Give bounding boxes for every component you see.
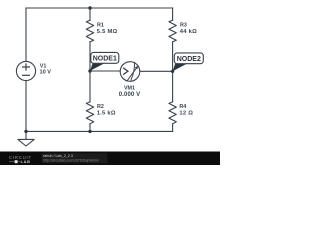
- wire NODE1 to voltmeter: [90, 70, 120, 72]
- resistor R4 zigzag: [169, 102, 176, 124]
- VM1 V glyph (rotated): [123, 68, 128, 75]
- svg-text:R3: R3: [180, 23, 187, 29]
- node NODE1 label box: [91, 52, 119, 63]
- svg-text:NODE1: NODE1: [93, 56, 117, 63]
- junction NODE1: [88, 69, 91, 72]
- ground symbol triangle: [18, 139, 34, 146]
- junction bottom rail / ground: [24, 130, 27, 133]
- logo LAB row: [9, 159, 31, 164]
- svg-text:0.000 V: 0.000 V: [119, 92, 140, 98]
- resistor R2 zigzag: [86, 102, 93, 124]
- wire bottom rail: [26, 130, 173, 132]
- wire R4 bottom lead: [172, 124, 174, 132]
- VM1 meter arc: [131, 62, 135, 81]
- junction NODE2: [171, 70, 174, 73]
- svg-text:NODE2: NODE2: [177, 56, 201, 63]
- wire R1 top lead: [89, 8, 91, 20]
- svg-text:R2: R2: [97, 104, 104, 110]
- svg-text:R4: R4: [179, 104, 186, 110]
- svg-text:1.5 kΩ: 1.5 kΩ: [97, 111, 116, 117]
- V1 plus sign: [22, 63, 30, 70]
- wire R2 bottom lead: [89, 124, 91, 132]
- node NODE2 pointer: [173, 64, 187, 72]
- VM1 needle arrowhead: [135, 66, 138, 70]
- resistor R3 zigzag: [169, 20, 176, 42]
- voltage source V1 circle: [16, 61, 35, 80]
- wire R1-R2 middle segment: [89, 42, 91, 102]
- wire voltmeter to NODE2: [140, 70, 173, 72]
- svg-text:VM1: VM1: [124, 85, 135, 91]
- svg-text:44 kΩ: 44 kΩ: [180, 29, 197, 35]
- node NODE1 pointer: [90, 63, 105, 71]
- svg-text:V1: V1: [40, 64, 47, 70]
- svg-text:10 V: 10 V: [40, 70, 52, 76]
- wire left branch upper (V1 top lead): [25, 8, 27, 61]
- junction bottom rail / R2: [88, 130, 91, 133]
- footer attribution highlight box: [42, 153, 108, 163]
- V1 minus sign: [22, 74, 30, 76]
- wire top rail: [26, 7, 173, 9]
- VM1 needle arrow: [127, 68, 137, 81]
- wire left branch lower (V1 bottom lead): [25, 81, 27, 132]
- svg-text:LAB: LAB: [21, 159, 31, 164]
- svg-text:5.5 MΩ: 5.5 MΩ: [97, 29, 118, 35]
- voltmeter VM1: [120, 62, 140, 82]
- node NODE2 label box: [174, 53, 203, 64]
- wire R3 top lead: [172, 8, 174, 20]
- wire ground stem: [25, 131, 27, 139]
- junction top rail / R1: [88, 6, 91, 9]
- svg-text:R1: R1: [97, 23, 104, 29]
- svg-text:http://circuitlab.com/c6763bqm: http://circuitlab.com/c6763bqmkbbm: [43, 158, 99, 162]
- resistor R1 zigzag: [86, 20, 93, 42]
- wire R3-R4 middle segment: [172, 42, 174, 102]
- svg-text:12 Ω: 12 Ω: [179, 111, 193, 117]
- footer attribution bar: [0, 152, 220, 166]
